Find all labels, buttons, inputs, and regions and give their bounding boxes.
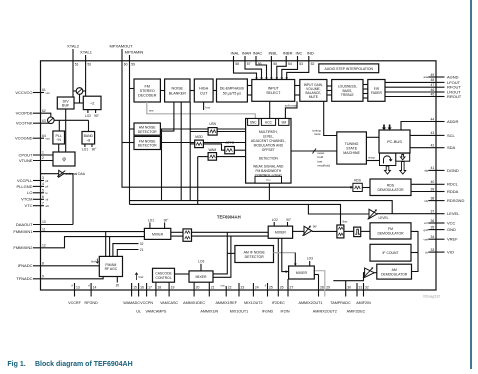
wire input gain to loudness 1 bbox=[327, 85, 332, 87]
svg-text:46: 46 bbox=[431, 88, 435, 92]
block PLL divider bbox=[53, 131, 65, 144]
pin 14 RFGND bbox=[85, 283, 98, 305]
svg-text:54: 54 bbox=[288, 62, 292, 66]
wire reference 20 below RF AGC bbox=[116, 277, 120, 288]
svg-text:50: 50 bbox=[87, 62, 91, 66]
wire input select to input gain (lower) bbox=[295, 94, 300, 96]
svg-text:19: 19 bbox=[171, 285, 175, 289]
svg-text:INAC: INAC bbox=[253, 51, 263, 56]
svg-text:VAMCASC: VAMCASC bbox=[160, 301, 178, 305]
wire FM mixer to IF AGC (upper) bbox=[171, 231, 183, 233]
svg-text:ADJACENT CHANNEL,: ADJACENT CHANNEL, bbox=[251, 139, 286, 143]
svg-text:XTAL1: XTAL1 bbox=[80, 50, 93, 55]
svg-text:RROUT: RROUT bbox=[447, 94, 462, 99]
pin 60 MPXAMOUT wire (down to H1 bus) bbox=[109, 44, 353, 189]
svg-text:soft mute: soft mute bbox=[285, 104, 298, 108]
svg-text:VCCPLL: VCCPLL bbox=[17, 178, 33, 183]
svg-text:26: 26 bbox=[280, 285, 284, 289]
wire IF filter to limiter bbox=[344, 230, 354, 232]
svg-text:INPUT: INPUT bbox=[268, 87, 280, 91]
svg-text:MPXAMIN: MPXAMIN bbox=[125, 50, 144, 55]
svg-text:DETECTOR: DETECTOR bbox=[138, 144, 157, 148]
svg-text:LO2: LO2 bbox=[85, 114, 91, 118]
block OFFS detector bbox=[225, 141, 235, 154]
svg-text:DEMODULATOR: DEMODULATOR bbox=[377, 232, 404, 236]
pin 24 MIX1OUT2 bbox=[244, 283, 262, 305]
pin 10 DAAOUT wire from external DAA bbox=[16, 220, 73, 227]
svg-text:FM/AM: FM/AM bbox=[105, 263, 116, 267]
svg-text:34: 34 bbox=[431, 235, 435, 239]
svg-text:TEF6904AH: TEF6904AH bbox=[217, 215, 241, 220]
svg-text:÷N: ÷N bbox=[56, 138, 61, 142]
block INPUT SELECT bbox=[252, 80, 295, 102]
svg-text:51: 51 bbox=[75, 62, 79, 66]
svg-text:WAMADC: WAMADC bbox=[123, 301, 140, 305]
svg-text:57: 57 bbox=[247, 62, 251, 66]
svg-text:SNC: SNC bbox=[250, 121, 257, 125]
svg-text:LO1: LO1 bbox=[82, 148, 88, 152]
pin 17 VCCPN bbox=[140, 283, 153, 305]
block F/R FADER bbox=[368, 80, 385, 102]
wire de-emphasis to input select (lower) bbox=[247, 94, 251, 96]
block FM NOISE DETECTOR bbox=[134, 136, 160, 149]
pin 23 MIX1OUT1 bbox=[230, 283, 248, 314]
svg-text:HIGH: HIGH bbox=[199, 87, 209, 91]
wire FM stereo decoder to noise blanker bbox=[160, 90, 164, 92]
caption Fig 1 Block diagram bbox=[7, 361, 132, 368]
wire MPXAMIN bus to FM stereo decoder bbox=[130, 88, 135, 90]
svg-text:VCC: VCC bbox=[447, 220, 456, 225]
block FM MIXER bbox=[144, 228, 170, 239]
pin 12 FMMIXIN2 wire to FM mixer bbox=[13, 237, 144, 251]
svg-text:lo: lo bbox=[46, 191, 49, 195]
I2C transfer box A bbox=[380, 153, 396, 165]
svg-text:3: 3 bbox=[42, 176, 44, 180]
pin 2 VTUNE wire to phase detector bbox=[19, 156, 53, 163]
pin 34 VREF bbox=[424, 235, 459, 242]
svg-text:41: 41 bbox=[431, 166, 435, 170]
svg-text:RDS: RDS bbox=[354, 179, 361, 183]
pin 41 DGND bbox=[424, 166, 458, 173]
svg-text:PLLGND: PLLGND bbox=[16, 184, 32, 189]
wire reference 21 bbox=[117, 248, 143, 256]
svg-text:AMMIX2OUT2: AMMIX2OUT2 bbox=[313, 310, 337, 314]
wire control block to H2 bus bbox=[268, 183, 270, 201]
wire MOD to OFFS bbox=[203, 144, 224, 150]
svg-text:MODULATION AND: MODULATION AND bbox=[254, 144, 284, 148]
svg-text:DE-EMPHASIS: DE-EMPHASIS bbox=[220, 87, 245, 91]
wire AM oscillator to dividers bbox=[54, 120, 88, 131]
pin 7 VTC bbox=[25, 201, 50, 208]
svg-text:INAL: INAL bbox=[231, 51, 241, 56]
pin 55 INBL bbox=[268, 51, 278, 80]
wire USN to control block bbox=[217, 131, 246, 133]
wire WAM to control block bbox=[217, 156, 246, 158]
svg-text:I²C-BUS: I²C-BUS bbox=[387, 139, 402, 144]
pin 50 XTAL1 bbox=[80, 50, 93, 97]
svg-text:gnd: gnd bbox=[424, 228, 429, 232]
svg-text:ADDR: ADDR bbox=[447, 119, 458, 124]
FM crystal oscillator circle bbox=[73, 88, 86, 103]
svg-text:43: 43 bbox=[431, 131, 435, 135]
svg-text:AGND: AGND bbox=[447, 74, 459, 79]
device name TEF6904AH bbox=[217, 215, 241, 220]
pin 64 VCOGND bbox=[15, 134, 50, 141]
svg-text:38: 38 bbox=[431, 196, 435, 200]
svg-text:LO1: LO1 bbox=[148, 218, 154, 222]
svg-text:DETECTOR: DETECTOR bbox=[138, 130, 157, 134]
pin 58 INAL bbox=[231, 51, 258, 80]
wire IF counter tap bbox=[411, 252, 418, 254]
svg-text:20: 20 bbox=[116, 283, 120, 287]
block FM STEREO DECODER bbox=[134, 79, 160, 102]
I2C down arrows above box bbox=[382, 125, 392, 131]
svg-text:÷8: ÷8 bbox=[86, 138, 90, 142]
svg-text:56: 56 bbox=[258, 62, 262, 66]
svg-text:TFNADC: TFNADC bbox=[16, 276, 32, 281]
svg-text:7: 7 bbox=[42, 201, 44, 205]
svg-text:IFNADC: IFNADC bbox=[18, 263, 33, 268]
gray sns wire stereo decoder to SNC bbox=[147, 102, 256, 119]
pin 45 RROUT wire from fader bbox=[385, 92, 462, 99]
svg-text:WEAK SIGNAL AND: WEAK SIGNAL AND bbox=[253, 165, 284, 169]
wire noise blanker to high cut bbox=[190, 90, 194, 92]
svg-text:VCCRF: VCCRF bbox=[68, 301, 81, 305]
pin 46 LROUT wire from fader bbox=[385, 88, 461, 95]
svg-text:AMMIX1REF: AMMIX1REF bbox=[215, 301, 237, 305]
svg-text:DEMODULATOR: DEMODULATOR bbox=[377, 188, 404, 192]
temp wire bbox=[366, 156, 379, 161]
svg-text:pll: pll bbox=[46, 179, 49, 183]
svg-text:INC: INC bbox=[296, 51, 303, 56]
svg-text:LEVEL: LEVEL bbox=[447, 211, 460, 216]
wire AM mixer output up to IF bus (2) bbox=[213, 236, 231, 277]
svg-text:MPXAMOUT: MPXAMOUT bbox=[109, 44, 133, 49]
svg-text:60: 60 bbox=[124, 62, 128, 66]
svg-text:VTCM: VTCM bbox=[21, 197, 32, 202]
svg-text:STEREO: STEREO bbox=[140, 89, 155, 93]
pin 8 IFNADC wire to RF AGC bbox=[18, 262, 100, 269]
external DAA amplifier bbox=[57, 170, 86, 177]
wire high cut to de-emphasis bbox=[213, 90, 216, 92]
LO1 labels above FM mixer bbox=[148, 218, 169, 228]
svg-text:FMMIXIN1: FMMIXIN1 bbox=[13, 229, 33, 234]
svg-text:21: 21 bbox=[211, 285, 215, 289]
svg-text:DAAOUT: DAAOUT bbox=[16, 222, 33, 227]
tuning mute wire to tuning state machine bbox=[312, 101, 336, 136]
svg-text:IF2DEC: IF2DEC bbox=[272, 301, 285, 305]
wire noise blanker stub 1 bbox=[162, 102, 174, 131]
svg-text:4: 4 bbox=[42, 182, 44, 186]
svg-text:CUT: CUT bbox=[200, 91, 208, 95]
wire PLL to phase detector bbox=[58, 144, 60, 152]
block AM IF NOISE DETECTOR bbox=[235, 246, 274, 263]
svg-text:RDSGND: RDSGND bbox=[447, 198, 464, 203]
svg-text:18: 18 bbox=[157, 285, 161, 289]
svg-text:IND: IND bbox=[307, 51, 314, 56]
svg-text:53: 53 bbox=[299, 62, 303, 66]
pin 6 VTCM bbox=[21, 195, 48, 202]
wire noise blanker stub 2 to H2 bus bbox=[180, 102, 182, 201]
vertical detector bus V_e bbox=[197, 157, 199, 205]
wire input select to input gain (upper) bbox=[295, 85, 300, 87]
svg-text:39: 39 bbox=[431, 187, 435, 191]
svg-text:DEMODULATOR: DEMODULATOR bbox=[381, 272, 408, 276]
fmx stub below high cut bbox=[204, 102, 211, 110]
svg-text:dig: dig bbox=[424, 169, 428, 173]
svg-text:30: 30 bbox=[347, 285, 351, 289]
block RDS DEMODULATOR bbox=[370, 179, 411, 196]
wire cascode control to AM mixer bbox=[175, 273, 190, 275]
pin 15 WAMADC bbox=[123, 283, 140, 305]
wire loudness to fader 2 bbox=[363, 88, 368, 90]
svg-text:VREF: VREF bbox=[447, 237, 458, 242]
svg-text:63: 63 bbox=[42, 119, 46, 123]
svg-text:16: 16 bbox=[140, 285, 144, 289]
wire RDS filter to RDS demodulator bbox=[362, 187, 370, 189]
block AM DEMODULATOR bbox=[377, 264, 412, 279]
svg-text:INBR: INBR bbox=[283, 51, 293, 56]
svg-text:BUF: BUF bbox=[62, 104, 70, 108]
svg-text:MULTIPATH,: MULTIPATH, bbox=[259, 130, 278, 134]
svg-text:LO3: LO3 bbox=[198, 259, 204, 263]
I2C transfer box B bbox=[396, 153, 410, 161]
svg-text:6: 6 bbox=[42, 195, 44, 199]
pin 16 UL bbox=[136, 283, 144, 314]
block MULTIPATH LEVEL ADJACENT CHANNEL MODULATION AND OFFSET DETECTION / WEAK SIGNAL AND FM BANDWIDTH CONTROL LOGIC (with SNC HCC SM) bbox=[246, 119, 291, 184]
svg-text:VTC: VTC bbox=[25, 203, 33, 208]
svg-text:24: 24 bbox=[255, 285, 259, 289]
wire IF amplifier to IF bandwidth filter bbox=[312, 230, 337, 232]
svg-text:BLANKER: BLANKER bbox=[169, 91, 187, 95]
soft mute wire to SM box bbox=[285, 101, 298, 118]
wire FM demodulator junction bbox=[411, 231, 418, 271]
svg-text:14: 14 bbox=[93, 285, 97, 289]
pin 62 VCOPDB wire to AM osc bbox=[16, 109, 51, 117]
svg-text:TUNING: TUNING bbox=[345, 142, 359, 146]
svg-text:50 μs/75 μs: 50 μs/75 μs bbox=[223, 91, 241, 95]
svg-text:RDDA: RDDA bbox=[447, 189, 459, 194]
svg-text:mute: mute bbox=[314, 132, 321, 136]
wire AM demod amplifier to AM demodulator bbox=[374, 272, 377, 274]
pin 32 AMIF2IN bbox=[356, 283, 371, 305]
svg-text:DECODER: DECODER bbox=[138, 94, 157, 98]
pin 51 XTAL2 bbox=[67, 44, 80, 98]
wire FM noise detector to control block bbox=[160, 142, 245, 144]
gray wire AM IF noise detector to AM IF mixer bbox=[274, 253, 297, 266]
svg-text:AUDIO STEP INTERPOLATION: AUDIO STEP INTERPOLATION bbox=[325, 67, 374, 71]
svg-text:FADER: FADER bbox=[371, 91, 383, 95]
wire FM mixer to IF AGC (lower) bbox=[171, 235, 183, 237]
wire input gain to loudness 3 bbox=[327, 94, 332, 96]
svg-text:HCC: HCC bbox=[265, 121, 273, 125]
svg-text:USN: USN bbox=[209, 122, 216, 126]
svg-text:8: 8 bbox=[42, 262, 44, 266]
svg-text:TREBLE: TREBLE bbox=[341, 93, 355, 97]
svg-text:LEVEL: LEVEL bbox=[379, 216, 389, 220]
svg-text:read/hold: read/hold bbox=[318, 164, 331, 168]
svg-text:62: 62 bbox=[42, 109, 46, 113]
wire AM noise detector to control block bbox=[160, 128, 245, 130]
pin 54 INBR bbox=[276, 51, 293, 80]
pin 57 INAR bbox=[242, 51, 263, 80]
svg-text:RDS: RDS bbox=[387, 184, 395, 188]
LO2 labels above IF2 mixer bbox=[272, 218, 292, 226]
svg-text:RDCL: RDCL bbox=[447, 182, 459, 187]
svg-text:CPOUT: CPOUT bbox=[19, 152, 34, 157]
block FM/AM RF AGC bbox=[99, 256, 122, 276]
svg-text:CONTROL: CONTROL bbox=[155, 276, 171, 280]
pin 11 FMMIXIN1 wire to FM mixer bbox=[13, 227, 144, 234]
svg-text:rds: rds bbox=[424, 199, 428, 203]
svg-text:52: 52 bbox=[311, 62, 315, 66]
pin 36 VCC bbox=[424, 219, 456, 226]
wire DIV BUF to divide-by-2 bbox=[74, 102, 83, 104]
svg-text:vco: vco bbox=[46, 92, 51, 95]
svg-text:90°: 90° bbox=[164, 218, 170, 222]
pin 21 AMMIX1IN wire to AM mixer bbox=[200, 282, 218, 313]
wire IF2 mixer to IF amplifier bbox=[293, 230, 304, 232]
svg-text:9: 9 bbox=[42, 275, 44, 279]
svg-text:VCCVCO: VCCVCO bbox=[15, 90, 32, 95]
pin 22 AMMIX1REF bbox=[215, 283, 237, 305]
pin 18 VAMCAMPS wire to cascode control bbox=[145, 282, 166, 313]
pin 9 TFNADC wire to RF AGC bbox=[16, 275, 103, 282]
pin 27 IF2IN wire to AM IF mixer bbox=[280, 279, 293, 314]
svg-text:VCOTNK: VCOTNK bbox=[16, 121, 33, 126]
pin 63 VCOTNK wire to AM osc bbox=[16, 119, 51, 126]
pin 5 LO bbox=[27, 189, 48, 196]
svg-text:90°: 90° bbox=[92, 148, 98, 152]
wire loudness to fader 4 bbox=[363, 97, 368, 99]
svg-text:59: 59 bbox=[131, 62, 135, 66]
svg-text:xtl: xtl bbox=[46, 198, 49, 202]
svg-text:TAMPRADC: TAMPRADC bbox=[330, 301, 351, 305]
svg-text:13: 13 bbox=[76, 285, 80, 289]
diagram outer frame bbox=[41, 61, 437, 290]
svg-text:11: 11 bbox=[42, 227, 46, 231]
block USN detector bbox=[208, 122, 217, 135]
svg-text:5: 5 bbox=[42, 189, 44, 193]
svg-text:VCCPN: VCCPN bbox=[140, 301, 153, 305]
wire frame to DAA amplifier bbox=[41, 173, 59, 175]
svg-text:FMMIXIN2: FMMIXIN2 bbox=[13, 245, 33, 250]
svg-text:36: 36 bbox=[431, 219, 435, 223]
wire AM mixer output up to IF bus (1) bbox=[213, 232, 227, 274]
svg-text:ana: ana bbox=[424, 76, 429, 79]
wire MOD left bbox=[190, 143, 195, 145]
LO3 label above AM IF mixer bbox=[307, 257, 313, 266]
page border line (right, teal) bbox=[470, 0, 472, 369]
pin 31 AMIF2DEC bbox=[347, 283, 366, 314]
block TUNING STATE MACHINE bbox=[337, 132, 367, 164]
svg-text:UL: UL bbox=[136, 310, 141, 314]
block DIV BUF bbox=[57, 97, 74, 109]
svg-text:DETECTOR: DETECTOR bbox=[245, 255, 265, 259]
svg-text:SDA: SDA bbox=[447, 145, 456, 150]
wire tuning state machine to I2C-bus bbox=[366, 136, 379, 138]
svg-text:fmx: fmx bbox=[205, 105, 210, 109]
pin 29 AMMIX2OUT2 gray wire bbox=[313, 271, 337, 314]
pin 4 PLLGND bbox=[16, 182, 48, 189]
wire RF AGC to FMMIXIN1 bus (stub 1) bbox=[105, 232, 107, 257]
svg-text:vco: vco bbox=[46, 138, 51, 141]
level amplifier bbox=[368, 209, 389, 220]
block phase detector bbox=[53, 152, 75, 166]
svg-text:fbw: fbw bbox=[342, 219, 348, 223]
svg-text:001aag132: 001aag132 bbox=[423, 295, 440, 299]
svg-text:INBL: INBL bbox=[268, 51, 278, 56]
block IF AGC amplifier bbox=[183, 229, 192, 241]
wire OFFS to control block bbox=[234, 149, 245, 151]
pin 53 INC bbox=[281, 51, 304, 80]
block FM DEMODULATOR bbox=[370, 223, 411, 239]
wire de-emphasis to input select (upper) bbox=[247, 85, 251, 87]
svg-text:AMMIX2OUT1: AMMIX2OUT1 bbox=[299, 301, 323, 305]
pin 35 GND bbox=[424, 225, 456, 232]
svg-text:RF AGC: RF AGC bbox=[105, 267, 118, 271]
svg-text:pll: pll bbox=[46, 185, 49, 189]
svg-text:28: 28 bbox=[320, 285, 324, 289]
block BAND divider bbox=[82, 132, 95, 145]
svg-text:STATE: STATE bbox=[346, 147, 358, 151]
svg-text:V​ref: V​ref bbox=[91, 259, 96, 263]
svg-text:DETECTION: DETECTION bbox=[259, 156, 279, 160]
svg-text:21: 21 bbox=[140, 248, 144, 252]
svg-text:NOISE: NOISE bbox=[172, 87, 184, 91]
svg-text:sns: sns bbox=[149, 109, 154, 113]
svg-text:23: 23 bbox=[241, 285, 245, 289]
block AUDIO STEP INTERPOLATION bbox=[319, 64, 379, 73]
LO3 label above AM mixer bbox=[198, 259, 204, 271]
svg-text:44: 44 bbox=[431, 117, 435, 121]
svg-text:42: 42 bbox=[431, 144, 435, 148]
svg-text:10: 10 bbox=[42, 220, 46, 224]
wire USN left bbox=[190, 131, 208, 133]
wire DIV BUF to phase detector bbox=[65, 109, 67, 152]
svg-text:afc: afc bbox=[46, 204, 50, 208]
svg-text:VIO: VIO bbox=[447, 250, 454, 255]
svg-text:VCOGND: VCOGND bbox=[15, 136, 33, 141]
vertical wire to H2 bus (left) bbox=[161, 129, 163, 201]
svg-text:31: 31 bbox=[359, 285, 363, 289]
pin 59 MPXAMIN wire (down to H2 bus) bbox=[125, 50, 393, 214]
pin 56 INAC bbox=[253, 51, 268, 80]
pin 61 VCCVCO bbox=[15, 88, 50, 95]
pin 30 TAMPRADC wire to AM demod amplifier bbox=[330, 273, 364, 305]
block I2C-BUS bbox=[379, 130, 410, 153]
LO2 output stubs of divide-by-2 bbox=[85, 110, 100, 118]
svg-text:MACHINE: MACHINE bbox=[343, 151, 360, 155]
pin 44 ADDR wire from I2C-bus bbox=[401, 117, 458, 130]
svg-text:1: 1 bbox=[42, 151, 44, 155]
wire H3 to level amplifier bbox=[308, 204, 369, 214]
pin 43 SCL wire from I2C-bus bbox=[410, 131, 456, 138]
svg-text:MIXER: MIXER bbox=[152, 232, 164, 236]
svg-text:V​ref: V​ref bbox=[138, 275, 143, 279]
svg-text:90°: 90° bbox=[94, 114, 100, 118]
svg-text:AMMIX1DEC: AMMIX1DEC bbox=[183, 301, 205, 305]
pin 40 RDCL wire from RDS demodulator bbox=[411, 180, 459, 187]
svg-text:35: 35 bbox=[431, 225, 435, 229]
svg-text:XTAL2: XTAL2 bbox=[67, 44, 80, 49]
block divide-by-2 bbox=[83, 96, 101, 109]
wire RF AGC to FMMIXIN2 bus (stub 2) bbox=[109, 237, 111, 257]
svg-text:SCL: SCL bbox=[447, 133, 456, 138]
svg-text:MIXER: MIXER bbox=[275, 231, 287, 235]
block RDS filter bbox=[353, 179, 362, 192]
svg-text:90°: 90° bbox=[286, 218, 292, 222]
